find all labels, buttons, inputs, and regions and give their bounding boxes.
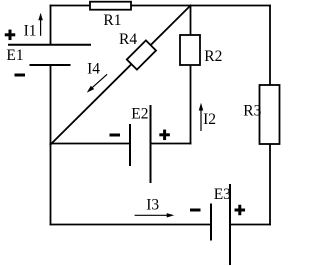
wire bottom right (E3 + to R3 branch) bbox=[230, 224, 270, 226]
svg-text:E3: E3 bbox=[214, 186, 231, 203]
resistor R1 bbox=[90, 2, 131, 10]
wire E1 + up to top bbox=[50, 6, 52, 45]
wire E2 right segment bbox=[151, 143, 191, 145]
wire bottom left (E3 - to left branch) bbox=[51, 224, 212, 226]
polarity - for E2 bbox=[110, 134, 121, 137]
svg-text:I1: I1 bbox=[24, 23, 37, 40]
wire R2 branch vertical bbox=[190, 6, 192, 144]
battery E2 plate - (short) bbox=[129, 124, 131, 166]
resistor R3 bbox=[260, 85, 280, 144]
svg-text:E2: E2 bbox=[131, 106, 148, 123]
resistor R4 bbox=[127, 40, 156, 69]
svg-text:I2: I2 bbox=[203, 111, 216, 128]
battery E3 plate + (long) bbox=[229, 184, 231, 265]
svg-text:R3: R3 bbox=[243, 103, 261, 120]
polarity + for E3 bbox=[235, 205, 246, 216]
svg-text:I3: I3 bbox=[146, 197, 159, 214]
polarity - for E3 bbox=[190, 209, 201, 212]
wire right side bbox=[269, 6, 271, 225]
wire diagonal (R4 branch from node B to node C) bbox=[51, 6, 191, 145]
svg-text:E1: E1 bbox=[6, 47, 23, 64]
polarity - for E1 bbox=[15, 74, 26, 77]
battery E2 plate + (long) bbox=[150, 105, 152, 183]
wire left side (E1 - down to bottom) bbox=[50, 65, 52, 225]
current arrow I2 bbox=[199, 103, 204, 131]
svg-text:R4: R4 bbox=[119, 31, 137, 48]
battery E3 plate - (short) bbox=[210, 204, 212, 241]
polarity + for E2 bbox=[159, 130, 170, 141]
polarity + for E1 bbox=[5, 30, 16, 41]
svg-text:R2: R2 bbox=[204, 48, 222, 65]
current arrow I1 bbox=[38, 13, 43, 36]
current arrow I4 bbox=[87, 74, 107, 92]
wire top (node A to top-right corner) bbox=[51, 5, 271, 7]
svg-text:R1: R1 bbox=[103, 12, 121, 29]
svg-text:I4: I4 bbox=[87, 61, 100, 78]
current arrow I3 bbox=[135, 213, 175, 217]
resistor R2 bbox=[180, 35, 200, 65]
battery E1 plate + (long) bbox=[8, 44, 91, 46]
wire E2 left segment bbox=[51, 143, 131, 145]
battery E1 plate - (short) bbox=[30, 64, 71, 66]
